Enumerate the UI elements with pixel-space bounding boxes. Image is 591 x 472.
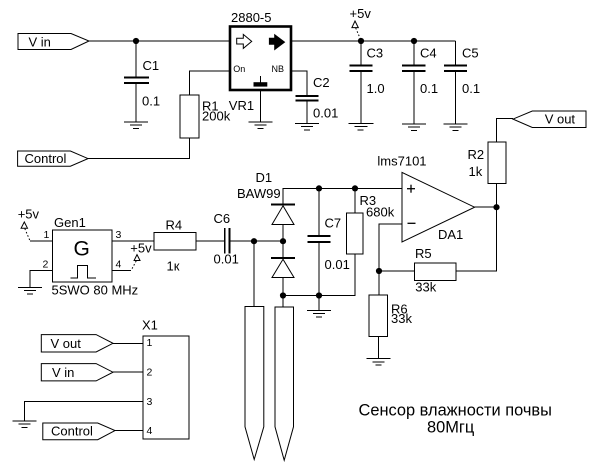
resistor R3 <box>347 188 395 254</box>
svg-text:3: 3 <box>116 229 122 241</box>
svg-text:+5v: +5v <box>18 206 40 221</box>
svg-text:V out: V out <box>51 336 82 351</box>
node: output junction <box>493 204 499 210</box>
svg-text:C2: C2 <box>313 75 330 90</box>
svg-text:Control: Control <box>51 423 93 438</box>
capacitor C6 <box>214 211 239 267</box>
output flag V out (X1) <box>41 335 113 352</box>
node: probe tap <box>251 238 257 244</box>
svg-text:2: 2 <box>43 258 49 270</box>
svg-text:V in: V in <box>52 365 74 380</box>
wire X1 pin3 to ground <box>25 402 143 421</box>
power +5v (Gen1 pin4) <box>130 241 152 271</box>
wire X1 pin2 <box>113 371 143 373</box>
wire R1 to Control <box>88 138 190 159</box>
wire R5 to op-amp output <box>456 207 497 271</box>
wire C6 to D1 middle <box>229 240 283 242</box>
svg-text:C7: C7 <box>325 215 342 230</box>
wire R2 bottom to output node <box>496 184 498 208</box>
svg-text:1: 1 <box>147 337 153 349</box>
svg-text:X1: X1 <box>142 318 158 333</box>
capacitor C1 <box>124 41 160 122</box>
wire D1 top to op-amp + rail <box>283 188 402 204</box>
svg-text:Сенсор влажности почвы: Сенсор влажности почвы <box>359 402 552 420</box>
capacitor C2 <box>296 75 339 124</box>
capacitor C7 <box>308 188 350 295</box>
VR1 tab pin <box>254 76 268 87</box>
svg-text:1к: 1к <box>167 259 180 274</box>
node: C3 junction <box>358 38 364 44</box>
resistor R5 <box>415 246 457 295</box>
node: V in / C1 junction <box>133 38 139 44</box>
wire op-amp minus input <box>379 224 402 271</box>
diode D1b <box>271 258 295 278</box>
Gen1 pulse symbol <box>71 266 97 279</box>
svg-text:D1: D1 <box>256 170 273 185</box>
svg-text:0.01: 0.01 <box>214 252 239 267</box>
resistor R2 <box>468 142 507 184</box>
svg-text:2880-5: 2880-5 <box>231 10 271 25</box>
oscillator Gen1 <box>52 215 139 297</box>
svg-text:4: 4 <box>147 425 153 437</box>
svg-text:0.1: 0.1 <box>420 81 438 96</box>
wire R6 to ground <box>377 337 379 359</box>
svg-text:R2: R2 <box>468 147 485 162</box>
svg-text:33k: 33k <box>391 311 412 326</box>
node: C4 junction <box>411 38 417 44</box>
connector X1 <box>142 318 189 439</box>
wire D1 bottom <box>282 278 284 296</box>
voltage regulator VR1 2880-5 <box>229 10 291 113</box>
diode D1a <box>271 205 295 225</box>
svg-text:0.01: 0.01 <box>313 105 338 120</box>
wire to right probe <box>282 296 284 308</box>
node: R3 top <box>352 185 358 191</box>
wire X1 pin4 <box>115 430 143 432</box>
wire bottom rail to R3 <box>283 254 355 296</box>
wire Gen1 pin4 to +5v <box>112 270 131 272</box>
ground (C2) <box>295 124 319 130</box>
wire to left probe <box>253 241 255 306</box>
wire X1 pin1 <box>113 342 143 344</box>
svg-text:V out: V out <box>545 112 576 127</box>
svg-text:On: On <box>233 64 245 74</box>
ground (bottom rail) <box>307 311 331 317</box>
power +5v (top rail) <box>350 6 372 40</box>
output flag Control (X1) <box>43 423 115 440</box>
ground (Gen1) <box>18 288 42 294</box>
svg-text:R4: R4 <box>166 217 183 232</box>
svg-text:C4: C4 <box>420 46 437 61</box>
node: bottom rail left <box>280 292 286 298</box>
node: feedback junction <box>376 268 382 274</box>
svg-text:NB: NB <box>272 64 285 74</box>
svg-text:VR1: VR1 <box>229 98 254 113</box>
svg-text:680k: 680k <box>366 205 395 220</box>
resistor R4 <box>154 217 196 273</box>
wire node to R6 <box>378 271 380 295</box>
wire VR1 NB pin to C2 <box>291 71 307 96</box>
ground (X1 pin3) <box>13 421 37 427</box>
svg-text:2: 2 <box>147 366 153 378</box>
svg-text:BAW99: BAW99 <box>237 186 281 201</box>
resistor R1 <box>180 95 231 138</box>
ground (C4) <box>402 124 426 130</box>
wire VR1 On pin to R1 <box>190 71 231 95</box>
svg-text:lms7101: lms7101 <box>377 153 426 168</box>
input flag V in <box>18 34 89 50</box>
node: D1 middle <box>280 238 286 244</box>
svg-text:G: G <box>74 237 90 260</box>
op-amp DA1 <box>377 153 474 242</box>
wire op-amp output <box>475 206 497 208</box>
svg-text:5SWO 80 MHz: 5SWO 80 MHz <box>52 283 139 298</box>
wire Gen1 pin3 to R4 <box>112 240 154 242</box>
svg-text:C5: C5 <box>462 46 479 61</box>
svg-text:V in: V in <box>29 34 51 49</box>
ground (C3) <box>349 124 374 130</box>
capacitor C5 <box>444 41 480 124</box>
node: C7 top <box>316 185 322 191</box>
capacitor C3 <box>350 41 385 124</box>
svg-text:+5v: +5v <box>130 241 152 256</box>
capacitor C4 <box>402 41 438 124</box>
svg-text:80Мгц: 80Мгц <box>427 419 475 437</box>
ground (R6) <box>366 359 390 365</box>
input flag Control <box>18 151 88 166</box>
node: bottom rail ground tap <box>316 292 322 298</box>
svg-text:1k: 1k <box>469 164 483 179</box>
VR1 output arrow (solid) <box>269 35 284 50</box>
wire Gen1 pin2 to ground <box>30 271 52 288</box>
svg-text:Control: Control <box>25 151 67 166</box>
wire node to R5 <box>379 270 415 272</box>
svg-text:0.1: 0.1 <box>142 93 160 108</box>
svg-text:200k: 200k <box>202 109 231 124</box>
svg-text:+5v: +5v <box>350 6 372 21</box>
wire VR1 ground pin <box>260 90 262 122</box>
wire to ground (bottom rail) <box>318 296 320 311</box>
svg-text:33k: 33k <box>415 279 436 294</box>
wire V in to VR1 <box>89 40 230 42</box>
wire VR1 output rail to C5 <box>291 40 456 42</box>
svg-text:DA1: DA1 <box>438 227 463 242</box>
svg-text:0.1: 0.1 <box>462 81 480 96</box>
svg-text:C6: C6 <box>214 211 231 226</box>
svg-text:1: 1 <box>44 229 50 241</box>
svg-text:4: 4 <box>116 258 122 270</box>
VR1 input arrow (hollow) <box>237 34 252 48</box>
svg-text:C3: C3 <box>367 46 384 61</box>
svg-text:C1: C1 <box>143 58 160 73</box>
ground (C1) <box>124 122 148 128</box>
wire R2 top to V out <box>497 119 514 142</box>
ground (VR1) <box>249 122 273 128</box>
wire R4 to C6 <box>196 240 225 242</box>
output flag V out (top) <box>513 111 586 128</box>
svg-text:1.0: 1.0 <box>367 81 385 96</box>
svg-text:0.01: 0.01 <box>325 257 350 272</box>
wire between diodes <box>282 225 284 258</box>
output flag V in (X1) <box>41 364 113 381</box>
probe electrode (right) <box>275 307 294 460</box>
svg-text:3: 3 <box>147 396 153 408</box>
ground (C5) <box>444 124 468 130</box>
probe electrode (left) <box>245 307 264 460</box>
wire Gen1 pin1 to +5v <box>30 240 52 242</box>
resistor R6 <box>369 295 412 337</box>
svg-text:Gen1: Gen1 <box>54 215 86 230</box>
svg-text:R5: R5 <box>415 246 432 261</box>
power +5v (Gen1 pin1) <box>18 206 40 240</box>
